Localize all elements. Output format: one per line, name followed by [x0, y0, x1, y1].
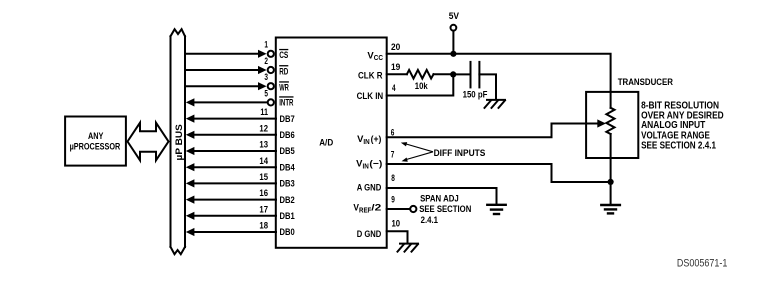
svg-text:10k: 10k — [415, 81, 429, 91]
wire VCC pin20 to transducer — [387, 54, 611, 92]
wire INTR pin5 — [194, 101, 268, 103]
svg-text:9: 9 — [391, 194, 395, 204]
5V terminal circle — [451, 25, 457, 31]
svg-text:15: 15 — [259, 172, 268, 182]
svg-text:16: 16 — [259, 188, 268, 198]
arrowhead DB0 — [186, 228, 195, 236]
resistor R1 10k — [407, 70, 434, 79]
svg-text:19: 19 — [391, 62, 400, 72]
capacitor C1 right plate — [478, 62, 480, 88]
bus break top — [171, 29, 186, 36]
wire DB5 pin13 — [194, 150, 277, 152]
wire DB1 pin17 — [194, 215, 277, 217]
wire CLK R pin19 stub — [387, 73, 407, 75]
svg-text:CS: CS — [279, 50, 288, 60]
svg-text:SPAN ADJ: SPAN ADJ — [420, 194, 459, 204]
svg-text:DB1: DB1 — [280, 211, 295, 221]
wire DB0 pin18 — [194, 231, 277, 233]
svg-text:IN: IN — [363, 139, 369, 146]
uP BUS right rail — [184, 36, 186, 247]
svg-text:A/D: A/D — [319, 138, 333, 148]
bus break bottom — [171, 247, 186, 254]
wire VIN+ pin6 — [387, 124, 552, 138]
arrowhead DB5 — [186, 147, 195, 155]
arrowhead DB3 — [186, 179, 195, 187]
svg-text:1: 1 — [264, 39, 268, 49]
junction dot VCC node — [450, 51, 456, 57]
inversion bubble pin1 — [268, 51, 274, 57]
svg-text:150 pF: 150 pF — [463, 89, 488, 99]
arrowhead diff upper — [401, 142, 407, 146]
earth ground for transducer — [601, 205, 620, 213]
wire VREF/2 pin9 stub — [387, 208, 411, 210]
svg-text:20: 20 — [391, 42, 400, 52]
A/D converter box U1 — [276, 38, 387, 248]
svg-text:D GND: D GND — [357, 229, 382, 239]
svg-text:10: 10 — [392, 218, 401, 228]
earth ground for A GND — [487, 205, 505, 214]
arrowhead diff lower — [402, 158, 408, 162]
svg-text:12: 12 — [259, 123, 268, 133]
svg-text:DB2: DB2 — [280, 195, 295, 205]
svg-text:µP BUS: µP BUS — [174, 124, 184, 160]
terminal circle VREF/2 — [410, 206, 416, 212]
svg-text:14: 14 — [259, 156, 268, 166]
svg-text:SEE SECTION 2.4.1: SEE SECTION 2.4.1 — [641, 140, 716, 151]
svg-text:18: 18 — [259, 221, 268, 231]
svg-text:CC: CC — [374, 55, 383, 62]
svg-text:7: 7 — [391, 150, 395, 160]
potentiometer RT zigzag — [606, 108, 614, 134]
wire DB7 pin11 — [194, 118, 277, 120]
svg-text:REF: REF — [359, 208, 372, 215]
svg-text:DB7: DB7 — [280, 114, 295, 124]
svg-text:DB6: DB6 — [280, 130, 295, 140]
svg-text:DB4: DB4 — [280, 162, 296, 172]
svg-text:4: 4 — [392, 83, 396, 93]
wire WR pin3 — [185, 85, 259, 87]
arrowhead DB2 — [186, 196, 195, 204]
svg-text:13: 13 — [259, 140, 268, 150]
inversion bubble pin2 — [268, 67, 274, 73]
wire R1 to node — [434, 73, 454, 75]
svg-text:DS005671-1: DS005671-1 — [677, 258, 728, 270]
arrowhead DB4 — [186, 163, 195, 171]
arrowhead DB1 — [186, 212, 195, 220]
arrowhead RD — [258, 66, 267, 74]
svg-text:µPROCESSOR: µPROCESSOR — [70, 142, 121, 152]
wire potentiometer bottom to ground — [610, 134, 612, 204]
svg-text:5: 5 — [264, 88, 268, 98]
svg-text:INTR: INTR — [279, 98, 293, 108]
inversion bubble pin5 — [268, 99, 274, 105]
bidirectional bus arrow — [128, 123, 169, 161]
arrowhead potentiometer wiper — [597, 119, 606, 127]
wire wiper lead — [552, 123, 599, 125]
svg-text:(−): (−) — [369, 159, 382, 169]
svg-text:TRANSDUCER: TRANSDUCER — [618, 77, 674, 87]
chassis ground for C1 — [485, 100, 506, 108]
wire RD pin2 — [185, 69, 259, 71]
microprocessor box U-any — [65, 117, 126, 166]
svg-text:(+): (+) — [371, 134, 382, 144]
svg-text:DB3: DB3 — [280, 179, 295, 189]
wire capacitor to ground — [479, 74, 496, 99]
arrowhead INTR — [186, 98, 195, 106]
wire DB4 pin14 — [194, 166, 277, 168]
svg-text:/2: /2 — [371, 203, 381, 213]
svg-text:CLK R: CLK R — [358, 71, 383, 81]
diff inputs pointer line lower — [405, 152, 433, 160]
diff inputs pointer line upper — [404, 143, 433, 151]
wire CS pin1 — [185, 53, 259, 55]
inversion bubble pin3 — [268, 83, 274, 89]
svg-text:RD: RD — [279, 66, 288, 76]
junction dot CLK node — [450, 71, 456, 77]
svg-text:17: 17 — [259, 204, 268, 214]
wire VIN- pin7 — [387, 164, 611, 182]
svg-text:11: 11 — [260, 107, 268, 117]
svg-text:2: 2 — [264, 56, 268, 66]
svg-text:IN: IN — [363, 164, 369, 171]
wire DB6 pin12 — [194, 134, 277, 136]
wire D GND pin10 — [387, 231, 408, 243]
svg-text:6: 6 — [391, 128, 395, 138]
arrowhead DB7 — [186, 115, 195, 123]
svg-text:DB5: DB5 — [280, 146, 295, 156]
wire 5V drop — [452, 31, 454, 54]
chassis ground for D GND — [398, 244, 419, 252]
svg-text:A GND: A GND — [357, 182, 382, 192]
wire node to capacitor — [453, 73, 471, 75]
wire into potentiometer top — [610, 92, 612, 108]
svg-text:3: 3 — [264, 72, 268, 82]
svg-text:WR: WR — [279, 83, 289, 93]
arrowhead WR — [258, 82, 267, 90]
capacitor C1 150pF left plate — [470, 62, 472, 88]
svg-text:CLK IN: CLK IN — [357, 91, 384, 101]
wire A GND pin8 — [387, 188, 497, 204]
svg-text:2.4.1: 2.4.1 — [421, 215, 438, 225]
svg-text:SEE SECTION: SEE SECTION — [419, 204, 471, 214]
wire DB3 pin15 — [194, 182, 277, 184]
arrowhead CS — [258, 50, 267, 58]
svg-text:ANY: ANY — [88, 131, 104, 141]
wire DB2 pin16 — [194, 199, 277, 201]
transducer box — [586, 92, 638, 158]
arrowhead DB6 — [186, 131, 195, 139]
svg-text:DIFF INPUTS: DIFF INPUTS — [434, 148, 486, 158]
svg-text:8: 8 — [391, 173, 395, 183]
svg-text:DB0: DB0 — [280, 227, 295, 237]
svg-text:5V: 5V — [449, 11, 460, 21]
uP BUS left rail — [170, 36, 172, 247]
note 8-BIT RESOLUTION block — [641, 100, 724, 151]
wire CLK IN pin4 — [387, 74, 454, 95]
junction dot transducer ground node — [608, 179, 614, 185]
